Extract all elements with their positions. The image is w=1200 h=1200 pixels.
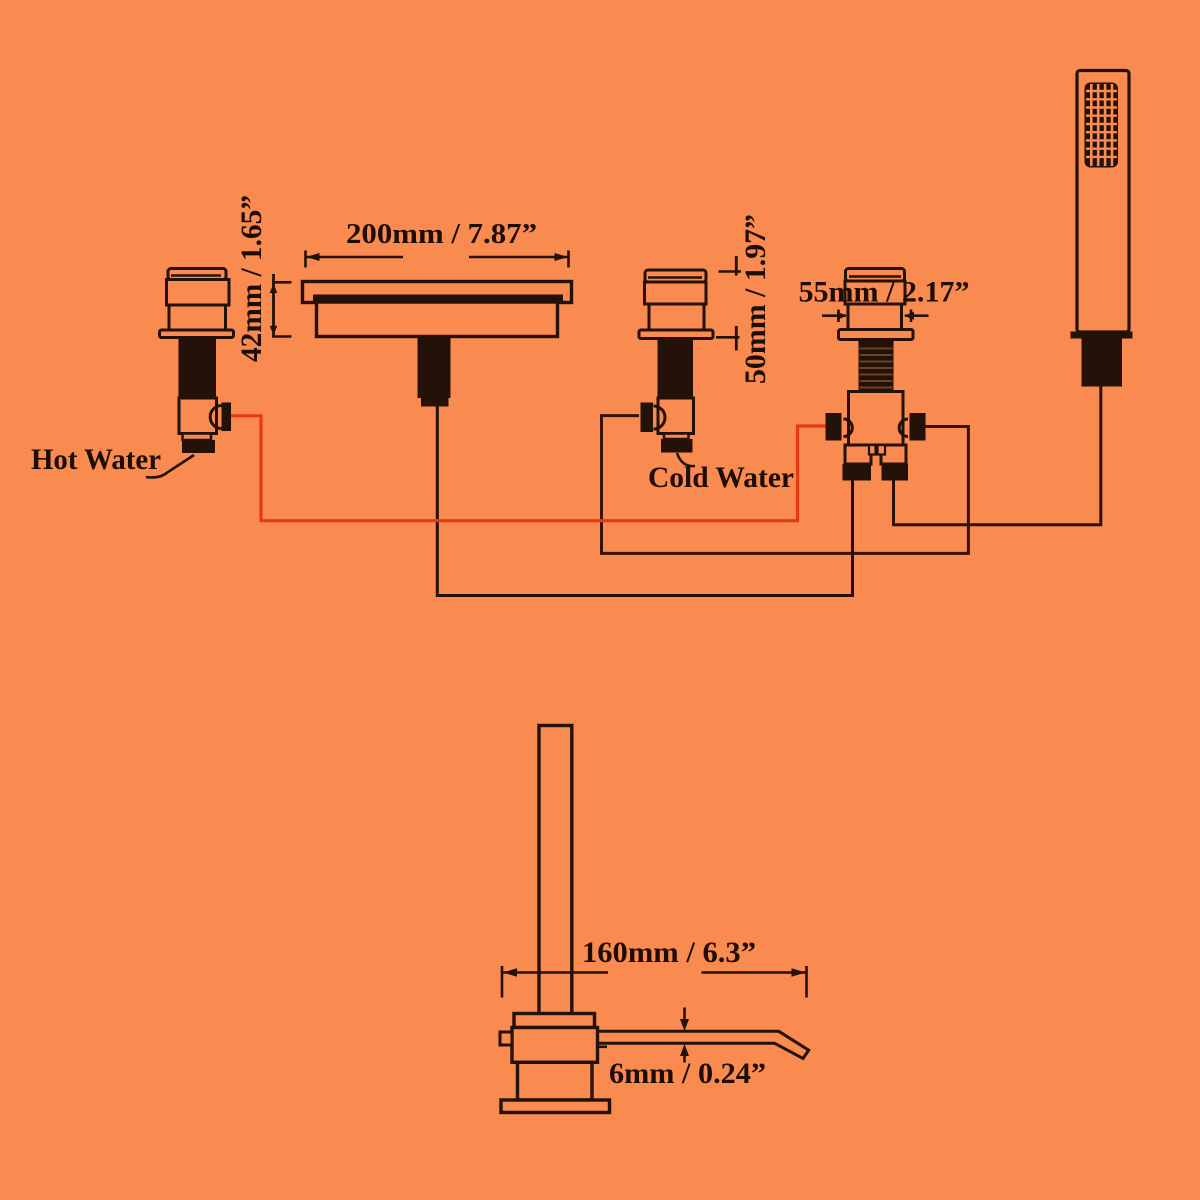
wire: spout feed hose, diverter U1 left outlet to spout W1 stem: [437, 406, 852, 596]
dimension lines 42mm (spout height): [270, 274, 292, 337]
dimension lines 160mm (spout reach): [502, 966, 807, 998]
leader line from "Hot Water" label to valve V1: [146, 455, 194, 477]
wire: hot water hose (red), valve V1 right port to diverter U1 left port: [231, 416, 826, 521]
svg-text:Cold Water: Cold Water: [648, 461, 794, 494]
svg-text:200mm / 7.87”: 200mm / 7.87”: [346, 218, 537, 250]
diverter valve U1: [826, 269, 926, 481]
svg-text:160mm / 6.3”: 160mm / 6.3”: [582, 936, 756, 969]
wire: cold water hose, valve V2 left port to diverter U1 right port: [602, 416, 969, 554]
svg-text:42mm / 1.65”: 42mm / 1.65”: [235, 195, 268, 362]
dimension arrows 55mm (diverter handle width): [822, 310, 929, 323]
svg-text:6mm / 0.24”: 6mm / 0.24”: [609, 1057, 766, 1090]
wire: shower hose, diverter U1 right outlet to hand shower H1: [894, 387, 1101, 525]
waterfall spout W1 (top view): [303, 282, 572, 407]
hand shower H1: [1071, 71, 1133, 387]
valve V1 (hot water handle): [160, 269, 234, 454]
dimension lines 200mm (spout width): [306, 251, 569, 268]
svg-text:55mm / 2.17”: 55mm / 2.17”: [799, 276, 970, 309]
svg-text:Hot Water: Hot Water: [31, 443, 161, 476]
spout W2 side view with mounting base (bottom figure): [500, 726, 809, 1113]
dimension arrows 6mm (spout arm thickness): [680, 1008, 689, 1063]
svg-text:50mm / 1.97”: 50mm / 1.97”: [739, 214, 772, 384]
valve V2 (cold water handle): [639, 270, 713, 453]
leader line from valve V2 to "Cold Water" label: [677, 453, 695, 466]
dimension ticks 50mm (valve V2 handle height): [716, 256, 741, 351]
